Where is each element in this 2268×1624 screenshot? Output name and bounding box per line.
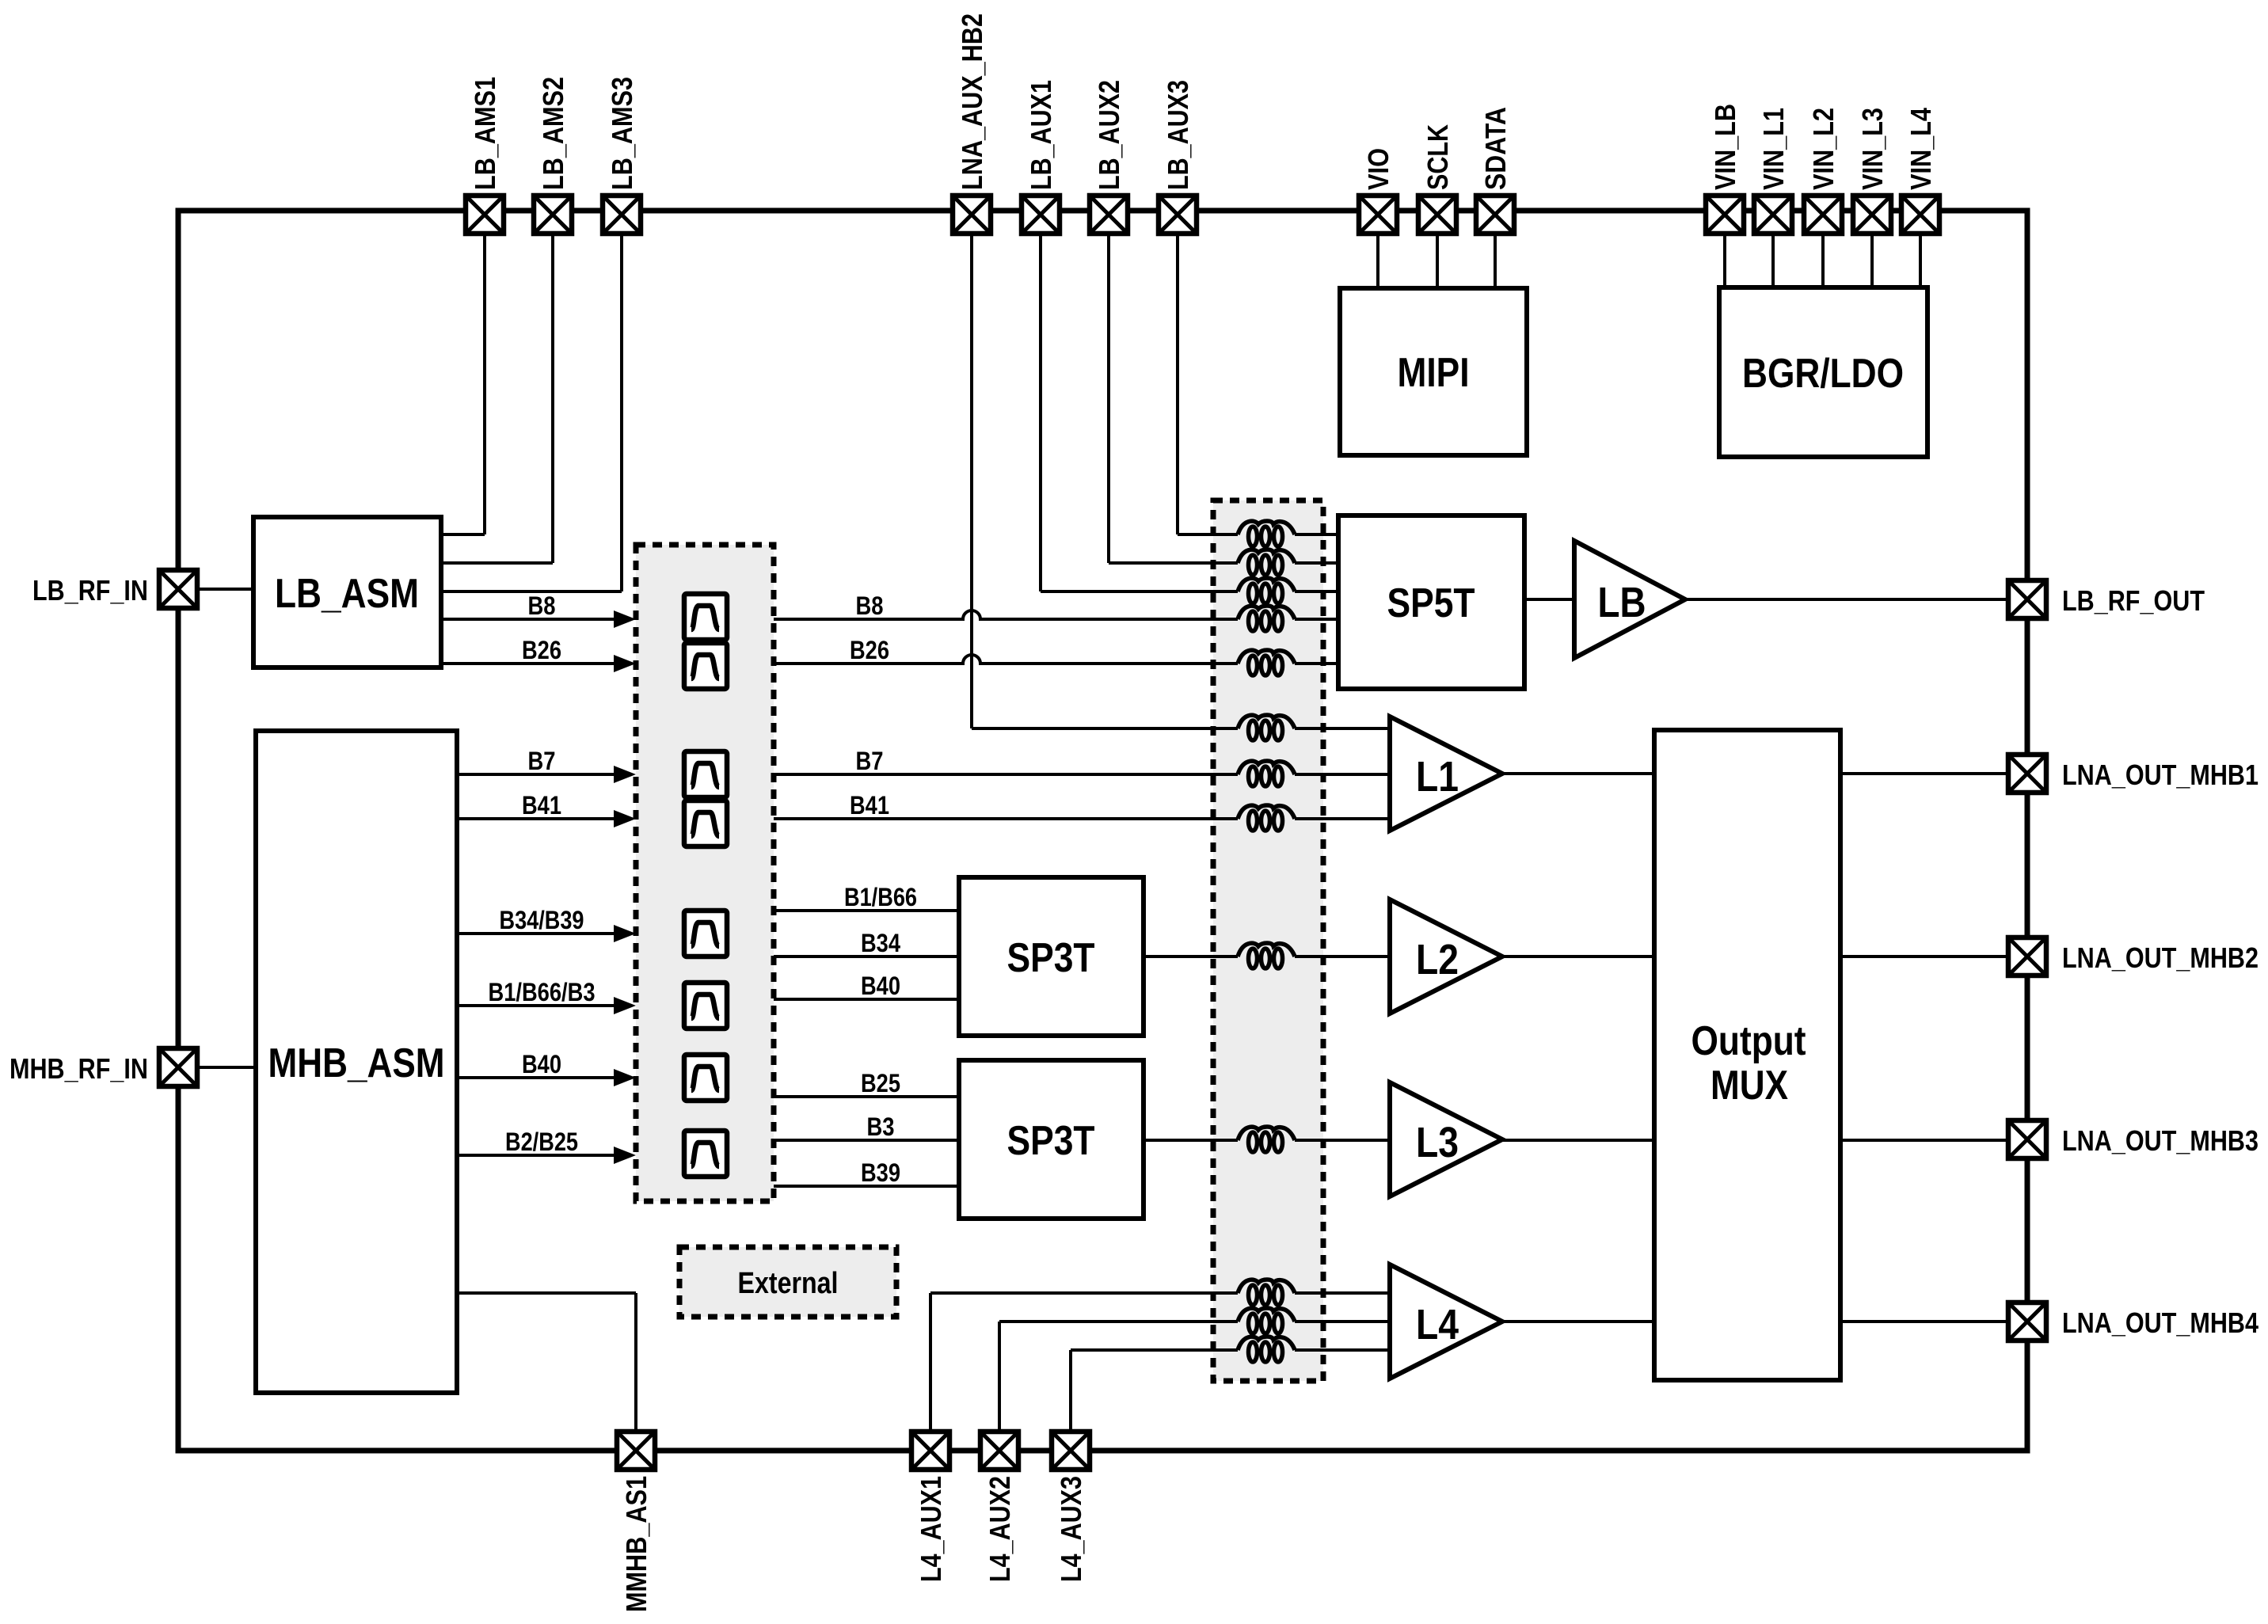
bandpass filter icon (B26) [684,643,727,689]
bandpass filter icon (B41) [684,801,727,846]
wire B26 filter to inductor (hop over LNA_AUX_HB2) [774,655,1238,664]
block SP3T switch 1 [959,877,1144,1036]
pin VIN_L1 [1754,196,1792,234]
wire LB_ASM to LB_AMS3 [441,236,622,591]
svg-text:VIN_L1: VIN_L1 [1757,108,1790,190]
svg-text:VIO: VIO [1362,148,1395,190]
inductor bank dashed box (external matching inductors) [1213,500,1323,1381]
wire VIO to MIPI [1376,236,1379,288]
pin LNA_OUT_MHB1 [2008,755,2046,793]
svg-text:L2: L2 [1416,936,1459,983]
svg-text:B39: B39 [861,1158,900,1187]
pin VIN_L2 [1804,196,1842,234]
wire SP3T1 output to inductor [1144,955,1238,958]
wire MHB_ASM to MMHB_AS1 pin [457,1293,636,1430]
wire inductor to L3 [1295,1139,1390,1142]
svg-text:L4: L4 [1416,1301,1459,1348]
pin LB_AMS2 [534,196,572,234]
arrowhead B40 into filter bank [614,1069,636,1086]
pin LB_RF_OUT [2008,580,2046,618]
svg-text:L4_AUX2: L4_AUX2 [984,1476,1016,1582]
wire Output MUX to LNA_OUT_MHB2 [1840,955,2007,958]
wire L2 to Output MUX [1502,955,1654,958]
pin VIN_L4 [1901,196,1939,234]
svg-text:B7: B7 [528,747,556,775]
svg-text:External: External [738,1267,839,1300]
wire B8 filter to inductor (hop over LNA_AUX_HB2) [774,610,1238,619]
wire LB_AUX2 down to SP5T row [1109,236,1238,563]
block MHB_ASM (mid/high band antenna switch module) [256,731,457,1393]
pin LB_AUX3 [1159,196,1197,234]
wire B34/B39 from MHB_ASM to filter bank [457,932,616,935]
svg-text:SDATA: SDATA [1479,107,1512,190]
pin SDATA [1476,196,1514,234]
wire L4 to Output MUX [1502,1320,1654,1323]
svg-text:SP5T: SP5T [1387,580,1475,626]
wire B26 from LB_ASM to filter bank [441,662,616,665]
pin LB_AUX2 [1090,196,1128,234]
svg-text:B41: B41 [850,791,889,820]
svg-text:B25: B25 [861,1069,900,1097]
svg-text:B8: B8 [856,591,884,620]
svg-text:LNA_OUT_MHB4: LNA_OUT_MHB4 [2062,1306,2258,1339]
svg-text:L1: L1 [1416,753,1459,801]
arrowhead B34/B39 into filter bank [614,925,636,942]
wire VIN_L2 to BGR/LDO [1821,236,1825,287]
svg-text:B8: B8 [528,591,556,620]
svg-text:LB_ASM: LB_ASM [275,571,419,617]
wire SP3T2 output to inductor [1144,1139,1238,1142]
wire B39 filter to SP3T2 [774,1185,959,1188]
wire SCLK to MIPI [1436,236,1439,288]
wire LNA_AUX_HB2 down to L1 input row [972,236,1238,728]
arrowhead B7 into filter bank [614,766,636,783]
svg-text:LB_RF_OUT: LB_RF_OUT [2062,584,2205,617]
arrowhead B26 into filter bank [614,655,636,672]
svg-text:MHB_RF_IN: MHB_RF_IN [10,1052,148,1085]
inductor on LB_AUX3 row [1238,521,1295,546]
svg-text:L4_AUX1: L4_AUX1 [915,1476,947,1582]
inductor on B8 row [1238,606,1295,631]
outer chip border [178,211,2027,1451]
wire B34 filter to SP3T1 [774,955,959,958]
svg-text:BGR/LDO: BGR/LDO [1742,351,1904,397]
wire B7 from MHB_ASM to filter bank [457,773,616,776]
svg-text:B7: B7 [856,747,884,775]
wire B1/B66 filter to SP3T1 [774,909,959,912]
arrowhead B1/B66/B3 into filter bank [614,997,636,1014]
svg-text:B1/B66: B1/B66 [844,883,917,911]
block BGR/LDO [1719,287,1927,457]
wire inductor to L4 (top input) [1295,1291,1390,1295]
inductor on LB_AUX2 row [1238,550,1295,575]
bandpass filter icon (B2/B25) [684,1131,727,1177]
amplifier LB [1574,541,1685,658]
pin L4_AUX3 [1052,1432,1090,1470]
pin LNA_OUT_MHB2 [2008,938,2046,976]
wire LB amplifier to LB_RF_OUT [1685,598,2007,601]
pin MMHB_AS1 [617,1432,655,1470]
svg-text:MHB_ASM: MHB_ASM [268,1040,445,1086]
svg-text:L4_AUX3: L4_AUX3 [1055,1476,1087,1582]
amplifier L1 [1390,717,1502,831]
svg-text:B2/B25: B2/B25 [505,1128,578,1156]
bandpass filter icon (B40) [684,1055,727,1101]
pin LNA_OUT_MHB3 [2008,1120,2046,1158]
svg-text:LB_AUX2: LB_AUX2 [1093,80,1125,190]
block Output MUX [1654,730,1840,1380]
pin LB_AMS1 [466,196,504,234]
wire VIN_L4 to BGR/LDO [1919,236,1922,287]
wire Output MUX to LNA_OUT_MHB4 [1840,1320,2007,1323]
svg-text:VIN_L4: VIN_L4 [1905,108,1937,190]
pin L4_AUX2 [980,1432,1018,1470]
bandpass filter icon (B7) [684,751,727,797]
inductor on L4_AUX1 row [1238,1280,1295,1305]
inductor on B26 row [1238,650,1295,675]
svg-text:LB_AUX3: LB_AUX3 [1162,80,1194,190]
wire B25 filter to SP3T2 [774,1095,959,1098]
wire inductor to SP5T (LB_AUX2) [1295,561,1338,565]
svg-text:LNA_OUT_MHB2: LNA_OUT_MHB2 [2062,941,2258,974]
svg-text:LNA_OUT_MHB3: LNA_OUT_MHB3 [2062,1124,2258,1157]
wire Output MUX to LNA_OUT_MHB3 [1840,1139,2007,1142]
inductor on SP3T1 output row [1238,943,1295,968]
svg-text:LB_AMS2: LB_AMS2 [537,77,569,190]
inductor on L4_AUX2 row [1238,1308,1295,1333]
svg-text:LNA_OUT_MHB1: LNA_OUT_MHB1 [2062,759,2258,791]
wire SDATA to MIPI [1494,236,1497,288]
pin MHB_RF_IN [159,1048,197,1086]
svg-text:VIN_L3: VIN_L3 [1856,108,1889,190]
svg-text:MUX: MUX [1711,1063,1788,1109]
svg-text:LB_AUX1: LB_AUX1 [1025,80,1057,190]
wire L4_AUX2 up to L4 input row [999,1322,1238,1430]
svg-text:VIN_LB: VIN_LB [1709,104,1741,190]
svg-text:B34/B39: B34/B39 [500,906,584,934]
svg-text:B34: B34 [861,929,900,957]
svg-text:SCLK: SCLK [1421,124,1454,190]
inductor on LB_AUX1 row [1238,578,1295,603]
svg-text:Output: Output [1691,1018,1806,1064]
arrowhead B8 into filter bank [614,610,636,628]
wire inductor to SP5T (LB_AUX3) [1295,533,1338,536]
filter bank dashed box (external filters) [636,545,774,1201]
pin SCLK [1418,196,1456,234]
wire B1/B66/B3 from MHB_ASM to filter bank [457,1004,616,1007]
wire inductor to L1 (LNA_AUX_HB2) [1295,727,1390,730]
External legend dashed box [679,1247,896,1317]
wire inductor to L4 (middle input) [1295,1320,1390,1323]
svg-text:B40: B40 [861,972,900,1000]
wire inductor to SP5T (B8) [1295,618,1338,621]
svg-text:LNA_AUX_HB2: LNA_AUX_HB2 [956,13,988,190]
svg-text:LB_RF_IN: LB_RF_IN [32,574,148,607]
block SP5T switch [1338,515,1524,689]
svg-text:LB_AMS1: LB_AMS1 [469,77,501,190]
wire LB_ASM to LB_AMS2 [441,236,553,563]
wire VIN_L3 to BGR/LDO [1870,236,1874,287]
amplifier L2 [1390,899,1502,1014]
svg-text:B40: B40 [522,1050,561,1078]
amplifier L3 [1390,1082,1502,1196]
wire inductor to SP5T (B26) [1295,662,1338,665]
wire B7 filter to inductor [774,773,1238,776]
svg-text:LB: LB [1598,579,1646,626]
pin L4_AUX1 [911,1432,949,1470]
inductor on LNA_AUX_HB2 row [1238,715,1295,740]
amplifier L4 [1390,1265,1502,1379]
block SP3T switch 2 [959,1060,1144,1219]
wire L4_AUX3 up to L4 input row [1071,1350,1238,1430]
svg-text:B1/B66/B3: B1/B66/B3 [489,978,596,1006]
wire B3 filter to SP3T2 [774,1139,959,1142]
svg-text:MIPI: MIPI [1398,350,1470,396]
wire B8 from LB_ASM to filter bank [441,618,616,621]
pin VIO [1359,196,1397,234]
wire VIN_L1 to BGR/LDO [1771,236,1775,287]
wire inductor to L1 (B7) [1295,773,1390,776]
svg-text:MMHB_AS1: MMHB_AS1 [620,1476,653,1612]
wire B41 filter to inductor [774,817,1238,820]
svg-text:L3: L3 [1416,1119,1459,1166]
inductor on L4_AUX3 row [1238,1337,1295,1362]
wire B41 from MHB_ASM to filter bank [457,817,616,820]
svg-text:SP3T: SP3T [1007,935,1095,981]
pin LB_AUX1 [1022,196,1060,234]
pin VIN_LB [1706,196,1744,234]
pin LB_AMS3 [603,196,641,234]
wire L4_AUX1 up to L4 input row [930,1293,1238,1430]
pin LB_RF_IN [159,570,197,608]
pin LNA_OUT_MHB4 [2008,1303,2046,1341]
wire inductor to L1 (B41) [1295,817,1390,820]
wire SP5T to LB amplifier [1524,598,1574,601]
inductor on B7 row [1238,761,1295,786]
wire LB_RF_IN to LB_ASM [199,588,253,591]
arrowhead B41 into filter bank [614,810,636,827]
wire LB_AUX3 down to SP5T row [1178,236,1238,534]
block MIPI [1340,288,1527,455]
wire LB_AUX1 down to SP5T row [1041,236,1238,591]
bandpass filter icon (B34/B39) [684,911,727,957]
svg-text:VIN_L2: VIN_L2 [1807,108,1840,190]
wire inductor to L4 (bottom input) [1295,1348,1390,1352]
wire B40 from MHB_ASM to filter bank [457,1076,616,1079]
svg-text:B41: B41 [522,791,561,820]
inductor on B41 row [1238,805,1295,831]
svg-text:B3: B3 [867,1112,895,1141]
inductor on SP3T2 output row [1238,1127,1295,1152]
wire L3 to Output MUX [1502,1139,1654,1142]
wire Output MUX to LNA_OUT_MHB1 [1840,772,2007,775]
svg-text:SP3T: SP3T [1007,1118,1095,1164]
svg-text:B26: B26 [850,636,889,664]
wire B2/B25 from MHB_ASM to filter bank [457,1154,616,1157]
svg-text:B26: B26 [522,636,561,664]
wire inductor to SP5T (LB_AUX1) [1295,590,1338,593]
wire VIN_LB to BGR/LDO [1723,236,1726,287]
wire B40 filter to SP3T1 [774,998,959,1001]
arrowhead B2/B25 into filter bank [614,1147,636,1164]
bandpass filter icon (B1/B66/B3) [684,983,727,1029]
block LB_ASM (low band antenna switch module) [253,517,441,667]
bandpass filter icon (B8) [684,594,727,640]
pin LNA_AUX_HB2 [953,196,991,234]
wire MHB_RF_IN to MHB_ASM [199,1066,256,1069]
wire inductor to L2 [1295,955,1390,958]
pin VIN_L3 [1853,196,1891,234]
wire L1 to Output MUX [1502,772,1654,775]
svg-text:LB_AMS3: LB_AMS3 [606,77,638,190]
wire LB_ASM to LB_AMS1 [441,236,485,534]
